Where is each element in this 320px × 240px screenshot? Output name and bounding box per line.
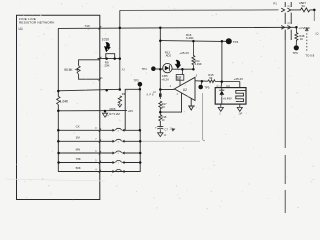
connector P1 dashed lines [284,2,286,40]
wire tap y90 [58,89,120,91]
svg-text:740: 740 [84,24,89,28]
test point TP4 [222,40,226,42]
U3 ground pins [218,104,223,111]
svg-text:1K: 1K [300,37,303,41]
resistor R8 [118,96,121,103]
wire +6.2V rail [172,68,193,70]
svg-text:75K: 75K [76,157,81,161]
svg-text:A: A [241,111,243,115]
wire op-amp output [160,89,174,91]
dotted ref line [306,30,308,52]
wire R15 [195,80,240,83]
zener inside U3 [219,88,224,105]
svg-text:TP6: TP6 [292,51,298,55]
ground under +6V wire [102,111,107,117]
svg-text:TO 0.8: TO 0.8 [305,54,314,58]
faint hook wire [202,93,205,141]
svg-text:5A: 5A [302,4,306,8]
svg-text:+6.49V: +6.49V [223,97,232,101]
svg-text:(1): (1) [287,5,290,8]
svg-text:+6.2V: +6.2V [161,77,169,81]
svg-text:1010: 1010 [102,38,109,42]
resistor A5R7 [291,8,314,12]
wire op-amp pin2 [160,93,181,112]
test point TP5 [200,81,203,85]
op-amp V- arrow [189,98,194,110]
svg-text:U1: U1 [19,27,23,31]
svg-text:C7: C7 [164,128,168,132]
pin tick W2 at box edge [99,26,102,29]
wire gamma [125,89,140,130]
trimmer R9 hat [106,54,115,59]
svg-text:1K: 1K [162,105,165,109]
resistor network U1 box [17,15,100,199]
svg-text:6.49K: 6.49K [195,62,202,66]
svg-text:TP2: TP2 [134,79,140,83]
resistor R17 [159,101,162,109]
test point TP2 [138,82,143,87]
resistor R18 [159,115,162,121]
svg-text:50K: 50K [76,166,81,170]
wire +6V tap [58,110,127,112]
test point TP6 [294,45,299,50]
scan fold artifact line [5,179,105,181]
capacitor C7 [157,127,163,129]
wire W1 top rail [120,9,279,12]
svg-text:2A: 2A [153,91,156,94]
row wire 75K [58,162,140,164]
svg-text:RESISTOR NETWORK: RESISTOR NETWORK [19,20,55,24]
svg-text:+25.2V: +25.2V [180,51,190,55]
chevron pins W1 [281,8,284,12]
svg-text:(2): (2) [287,22,290,25]
wire V160 [159,28,161,99]
wire TP2 bus [139,86,141,130]
svg-text:MN: MN [76,147,81,151]
svg-text:90.9K: 90.9K [64,68,73,72]
wire junction dots [57,9,316,164]
svg-text:*: * [127,91,128,94]
pin mark on V160 [159,93,162,96]
svg-text:20K: 20K [104,64,109,68]
svg-text:99: 99 [209,76,213,80]
wire TP4 down to U3 [220,41,223,87]
svg-text:+CVREF: +CVREF [299,26,311,30]
resistor R48 [295,27,298,45]
svg-text:CX: CX [76,125,80,129]
svg-text:+6V: +6V [128,109,135,113]
faint row2 extension [140,140,200,142]
right bus of rows [113,130,140,171]
svg-text:6.49K: 6.49K [186,36,194,40]
row wire 1M [58,140,140,142]
svg-text:TP5: TP5 [204,85,210,89]
wire bus V1 [57,28,59,171]
wire R9 [97,58,119,60]
svg-text:U2: U2 [183,88,187,92]
resistor 1.04K zigzag [57,96,60,104]
wire W2 740 rail [58,27,296,28]
adjust arrow R9 [104,42,111,52]
row wire MN [58,152,140,154]
wire vertical x120 [119,10,121,90]
row wire CX [58,129,140,131]
connector long boundary [284,40,286,213]
svg-text:R7 5.2M: R7 5.2M [109,112,120,116]
chevron pins W2 [281,26,284,30]
op-amp U2 [174,77,195,100]
wire A [160,40,222,43]
resistor 90.9K loop [79,60,100,79]
diode CR5 [163,63,172,72]
svg-text:20K: 20K [177,77,182,81]
meander resistor inside U3 [236,90,246,101]
svg-text:200K: 200K [109,107,116,111]
svg-text:TP1: TP1 [142,67,148,71]
test point TP1 [151,66,156,71]
row wire 50K [58,171,140,173]
ground under C7 [158,129,163,136]
label FINE LINE RESISTOR NETWORK [19,17,56,31]
svg-text:P1: P1 [273,2,277,6]
svg-text:ADJ: ADJ [166,54,172,58]
svg-text:TP4: TP4 [233,40,239,44]
resistor R13 20K [180,69,182,86]
svg-text:1M: 1M [76,136,81,140]
svg-text:+: + [155,125,157,129]
svg-text:A3: A3 [122,68,126,72]
svg-text:+25.2V: +25.2V [234,77,244,81]
svg-text:1.04K: 1.04K [60,100,69,104]
